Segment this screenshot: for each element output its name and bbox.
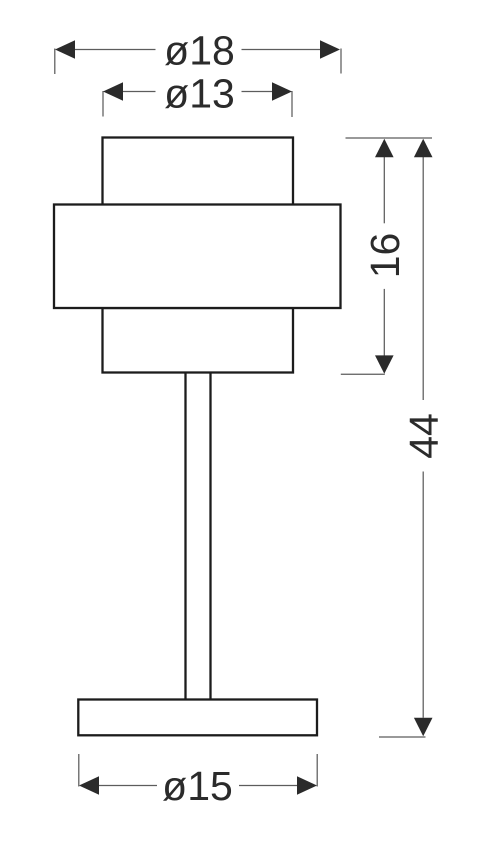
- svg-text:16: 16: [362, 233, 408, 279]
- dimension o15 line left segment: [99, 785, 157, 787]
- dimension o15 arrow right: [297, 776, 317, 795]
- dimension 44 bottom extension line: [379, 736, 426, 738]
- dimension 44 line bottom segment: [422, 472, 424, 718]
- dimension o18 line left segment: [74, 49, 156, 51]
- dimension 16 bottom extension line: [341, 373, 385, 375]
- dimension o13 extension line right: [291, 91, 293, 117]
- stem right line: [209, 373, 211, 701]
- dimension o15 extension line left: [78, 754, 80, 787]
- dimension 44 line top segment: [422, 157, 424, 400]
- dimension o13 arrow right: [272, 82, 292, 101]
- svg-text:ø18: ø18: [164, 27, 235, 73]
- lamp shade bottom tier: [103, 308, 294, 373]
- dimension o18 extension line right: [340, 49, 342, 74]
- dimension o13 arrow left: [103, 82, 123, 101]
- lamp shade top tier: [103, 138, 294, 206]
- dimension o15 arrow left: [79, 776, 99, 795]
- svg-text:44: 44: [401, 413, 447, 459]
- dimension 16 line bottom segment: [383, 289, 385, 356]
- dimension 44 arrow top: [414, 139, 433, 157]
- dimension o18 arrow right: [320, 40, 340, 59]
- dimension o13 line right segment: [242, 91, 273, 93]
- svg-text:ø13: ø13: [164, 70, 235, 116]
- dimension o13 line left segment: [123, 91, 156, 93]
- svg-text:ø15: ø15: [162, 763, 233, 809]
- lamp shade middle tier: [54, 205, 341, 309]
- dimension 16 and 44 top extension line: [346, 137, 433, 139]
- dimension 16 arrow bottom: [375, 355, 394, 373]
- dimension 44 arrow bottom: [414, 718, 433, 736]
- dimension o18 line right segment: [242, 49, 322, 51]
- dimension o18 extension line left: [54, 49, 56, 75]
- stem left line: [184, 373, 186, 701]
- base plate: [78, 700, 317, 736]
- dimension o18 arrow left: [55, 40, 75, 59]
- dimension 16 arrow top: [375, 139, 394, 157]
- dimension o15 line right segment: [239, 785, 298, 787]
- dimension 16 line top segment: [383, 157, 385, 223]
- dimension o15 extension line right: [316, 754, 318, 787]
- dimension o13 extension line left: [102, 91, 104, 117]
